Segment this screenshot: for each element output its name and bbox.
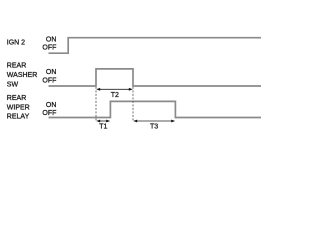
svg-text:ON: ON	[46, 102, 57, 109]
svg-text:T1: T1	[99, 124, 107, 131]
svg-text:T2: T2	[111, 92, 119, 99]
svg-text:REAR: REAR	[7, 63, 26, 70]
svg-text:RELAY: RELAY	[7, 114, 30, 121]
svg-text:WASHER: WASHER	[7, 72, 37, 79]
svg-text:WIPER: WIPER	[7, 104, 30, 111]
svg-text:T3: T3	[150, 124, 158, 131]
svg-text:REAR: REAR	[7, 95, 26, 102]
svg-text:OFF: OFF	[42, 110, 56, 117]
svg-text:OFF: OFF	[42, 77, 56, 84]
svg-text:SW: SW	[7, 81, 19, 88]
svg-text:IGN 2: IGN 2	[7, 39, 25, 46]
svg-text:OFF: OFF	[42, 45, 56, 52]
svg-text:ON: ON	[46, 69, 57, 76]
svg-text:ON: ON	[46, 36, 57, 43]
